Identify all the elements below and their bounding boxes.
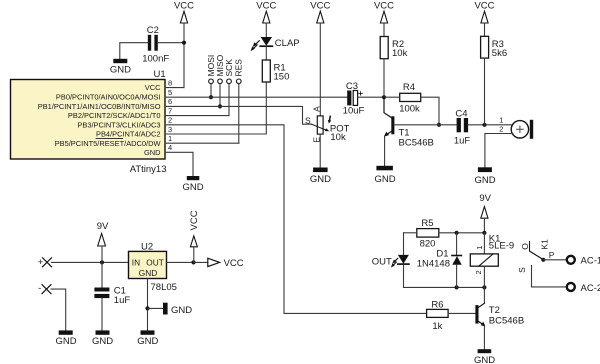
svg-text:100k: 100k bbox=[399, 104, 420, 115]
svg-text:BC546B: BC546B bbox=[489, 316, 524, 327]
VCC symbol above pin 8 bbox=[174, 1, 194, 88]
svg-text:GND: GND bbox=[110, 65, 131, 76]
svg-text:O: O bbox=[520, 243, 530, 250]
potentiometer POT 10k bbox=[305, 106, 350, 143]
svg-text:1: 1 bbox=[475, 246, 484, 250]
svg-text:5k6: 5k6 bbox=[492, 48, 507, 59]
ground (-X) bbox=[55, 330, 76, 347]
svg-text:GND: GND bbox=[55, 336, 76, 347]
wire R4 to node B bbox=[421, 97, 439, 125]
resistor R3 5k6 bbox=[481, 36, 508, 59]
junction R3/C4/mic bbox=[482, 123, 486, 127]
svg-text:2: 2 bbox=[168, 116, 172, 125]
switch K1 arm bbox=[530, 239, 555, 262]
terminal AC-1 bbox=[567, 256, 600, 267]
svg-text:3: 3 bbox=[168, 125, 172, 134]
wire node A to R4 bbox=[384, 96, 400, 98]
wire R2 to node A bbox=[383, 59, 385, 97]
svg-text:VCC: VCC bbox=[145, 83, 161, 92]
VCC symbol above R3 bbox=[474, 1, 494, 37]
svg-text:820: 820 bbox=[420, 239, 436, 250]
VCC symbol above R2 bbox=[374, 1, 394, 37]
VCC symbol above POT bbox=[310, 1, 330, 116]
svg-text:GND: GND bbox=[92, 336, 113, 347]
wire PB3 row down to R6 bbox=[165, 125, 427, 314]
junction 9V/C1 bbox=[100, 260, 104, 264]
resistor R5 820 bbox=[417, 218, 439, 249]
ground (side, rotated) bbox=[163, 303, 192, 316]
resistor R6 1k bbox=[427, 300, 449, 332]
junction node A bbox=[382, 95, 386, 99]
svg-text:1k: 1k bbox=[432, 321, 442, 332]
ground (U1) bbox=[182, 176, 203, 193]
wire LED to R1 bbox=[265, 46, 267, 60]
wire mic pin2 to GND bbox=[485, 134, 513, 168]
wire -X to GND bbox=[51, 289, 66, 330]
wire top relay rail bbox=[404, 232, 417, 234]
svg-text:6: 6 bbox=[168, 97, 172, 106]
switch K1 contact S to AC-2 bbox=[517, 266, 566, 287]
svg-text:D1: D1 bbox=[436, 248, 448, 259]
svg-text:R4: R4 bbox=[403, 82, 415, 93]
svg-text:VCC: VCC bbox=[224, 258, 244, 269]
connector +X input bbox=[38, 257, 52, 268]
wire R6 to T2 base bbox=[448, 312, 475, 314]
svg-text:-: - bbox=[38, 283, 41, 294]
wire C4 to mic bbox=[468, 124, 511, 126]
ground (POT) bbox=[310, 168, 331, 185]
svg-text:1uF: 1uF bbox=[454, 136, 471, 147]
svg-text:PB0/PCINT0/AIN0/OC0A/MOSI: PB0/PCINT0/AIN0/OC0A/MOSI bbox=[56, 93, 161, 102]
svg-text:ATtiny13: ATtiny13 bbox=[130, 164, 167, 175]
svg-text:1N4148: 1N4148 bbox=[417, 259, 450, 270]
capacitor C4 1uF bbox=[454, 108, 471, 146]
svg-text:PB1/PCINT1/AIN1/OC0B/INT0/MISO: PB1/PCINT1/AIN1/OC0B/INT0/MISO bbox=[38, 102, 161, 111]
svg-text:4: 4 bbox=[168, 143, 172, 152]
svg-text:OUT: OUT bbox=[372, 256, 392, 267]
wire PB1 row to pot wiper bbox=[165, 106, 312, 124]
svg-text:AC-1: AC-1 bbox=[581, 256, 600, 267]
svg-text:10uF: 10uF bbox=[343, 105, 365, 116]
9V symbol (left) bbox=[97, 221, 109, 262]
svg-text:CLAP: CLAP bbox=[275, 38, 300, 49]
wire U2 OUT bbox=[167, 261, 208, 263]
LED OUT bbox=[372, 233, 409, 288]
VCC symbol above LED CLAP bbox=[256, 1, 276, 38]
wire +X to U2 IN bbox=[52, 261, 129, 263]
regulator U2 78L05 bbox=[129, 242, 177, 293]
wire C3 to node A bbox=[358, 96, 384, 98]
svg-text:U1: U1 bbox=[154, 69, 166, 80]
resistor R1 150 bbox=[262, 60, 289, 82]
svg-text:S: S bbox=[517, 267, 527, 273]
svg-text:GND: GND bbox=[144, 148, 161, 157]
svg-text:GND: GND bbox=[171, 305, 192, 316]
wire PB0 row to C3 bbox=[165, 96, 347, 98]
junction VCC arrow bbox=[191, 260, 195, 264]
capacitor C3 10uF bbox=[343, 81, 365, 117]
junction C2/VCC bbox=[182, 41, 186, 45]
svg-text:10k: 10k bbox=[330, 132, 346, 143]
junction U2 gnd bbox=[145, 306, 149, 310]
svg-text:OUT: OUT bbox=[146, 258, 164, 268]
svg-text:2: 2 bbox=[499, 125, 503, 134]
svg-text:PB5/PCINT5/RESET/ADC0/DW: PB5/PCINT5/RESET/ADC0/DW bbox=[55, 139, 161, 148]
svg-text:PB4/PCINT4/ADC2: PB4/PCINT4/ADC2 bbox=[96, 130, 160, 139]
svg-text:R5: R5 bbox=[421, 218, 433, 229]
relay K1 5LE-9 coil bbox=[470, 233, 514, 288]
ground (mic) bbox=[474, 167, 495, 186]
ground (U2 bottom) bbox=[137, 330, 158, 347]
transistor T2 BC546B bbox=[475, 287, 524, 349]
svg-text:5LE-9: 5LE-9 bbox=[489, 241, 514, 252]
wire to side ground bbox=[148, 307, 164, 309]
svg-text:9V: 9V bbox=[97, 221, 109, 232]
svg-text:P: P bbox=[549, 250, 555, 260]
svg-text:C2: C2 bbox=[147, 25, 159, 36]
svg-text:7: 7 bbox=[168, 106, 172, 115]
ground (C2) bbox=[110, 59, 131, 76]
wire arm to AC-1 bbox=[543, 259, 566, 261]
resistor R4 100k bbox=[399, 82, 421, 114]
svg-text:100nF: 100nF bbox=[142, 54, 169, 65]
capacitor C1 1uF bbox=[94, 262, 130, 330]
svg-text:GND: GND bbox=[137, 336, 158, 347]
wire pin 8 bbox=[165, 87, 184, 89]
svg-text:1: 1 bbox=[499, 115, 503, 124]
wire PB2 row to SCK bbox=[165, 115, 229, 117]
svg-text:1: 1 bbox=[168, 134, 172, 143]
ground (T1) bbox=[374, 166, 395, 185]
svg-text:GND: GND bbox=[374, 174, 395, 185]
svg-text:5: 5 bbox=[168, 88, 172, 97]
wire C2 right to VCC line bbox=[158, 42, 184, 44]
microphone M1 bbox=[499, 115, 533, 139]
svg-text:PB2/PCINT2/SCK/ADC1/T0: PB2/PCINT2/SCK/ADC1/T0 bbox=[68, 111, 161, 120]
IC U1 ATtiny13 body bbox=[11, 69, 167, 175]
wire U2 GND down bbox=[147, 279, 149, 331]
wire PB5 row to RES bbox=[165, 142, 239, 144]
U1 pin numbers bbox=[168, 78, 172, 152]
node RES bbox=[234, 59, 244, 144]
wire R3 down to mic junction bbox=[484, 58, 486, 125]
svg-text:GND: GND bbox=[474, 175, 495, 186]
wire PB4 row to R1 bbox=[165, 82, 266, 134]
svg-text:RES: RES bbox=[234, 59, 244, 77]
svg-text:BC546B: BC546B bbox=[399, 137, 434, 148]
node MISO bbox=[215, 54, 225, 108]
node MOSI bbox=[206, 55, 216, 100]
VCC symbol (vertical label) bbox=[189, 210, 200, 262]
switch K1 contact O bbox=[520, 242, 530, 251]
wire node B to C4 bbox=[439, 124, 457, 126]
ground (T2) bbox=[474, 349, 495, 364]
diode D1 1N4148 bbox=[417, 233, 462, 288]
wire C2 left to GND bbox=[120, 43, 148, 59]
svg-text:AC-2: AC-2 bbox=[581, 283, 600, 294]
svg-text:S: S bbox=[305, 116, 311, 126]
svg-text:C4: C4 bbox=[455, 108, 467, 119]
svg-text:VCC: VCC bbox=[189, 210, 200, 230]
svg-text:10k: 10k bbox=[392, 48, 408, 59]
resistor R2 10k bbox=[380, 37, 407, 59]
junction node B bbox=[437, 123, 441, 127]
svg-text:150: 150 bbox=[274, 71, 290, 82]
connector -X input bbox=[38, 283, 51, 294]
wire POT to GND bbox=[319, 134, 321, 167]
svg-text:8: 8 bbox=[168, 78, 172, 87]
svg-text:GND: GND bbox=[182, 182, 203, 193]
svg-text:IN: IN bbox=[132, 258, 140, 268]
svg-text:78L05: 78L05 bbox=[151, 282, 177, 293]
terminal AC-2 bbox=[567, 283, 600, 294]
svg-text:A: A bbox=[311, 106, 321, 112]
svg-text:GND: GND bbox=[474, 355, 495, 364]
wire bottom relay rail bbox=[404, 286, 485, 288]
svg-text:1uF: 1uF bbox=[114, 295, 131, 306]
svg-text:K1: K1 bbox=[539, 239, 549, 250]
svg-text:9V: 9V bbox=[479, 193, 491, 204]
LED CLAP bbox=[251, 37, 300, 51]
transistor T1 BC546B bbox=[384, 97, 439, 166]
9V symbol (relay) bbox=[479, 193, 491, 233]
VCC output arrow bbox=[208, 258, 244, 269]
wire GND pin 4 bbox=[165, 152, 193, 176]
capacitor C2 bbox=[142, 25, 169, 65]
svg-text:SCK: SCK bbox=[224, 59, 234, 77]
node SCK bbox=[224, 59, 234, 116]
svg-text:PB3/PCINT3/CLKI/ADC3: PB3/PCINT3/CLKI/ADC3 bbox=[77, 120, 160, 129]
U1 pin labels bbox=[38, 83, 161, 157]
svg-text:GND: GND bbox=[139, 268, 157, 278]
svg-text:T2: T2 bbox=[489, 305, 500, 316]
svg-text:2: 2 bbox=[474, 270, 483, 274]
svg-text:GND: GND bbox=[310, 174, 331, 185]
ground (C1) bbox=[92, 330, 113, 347]
